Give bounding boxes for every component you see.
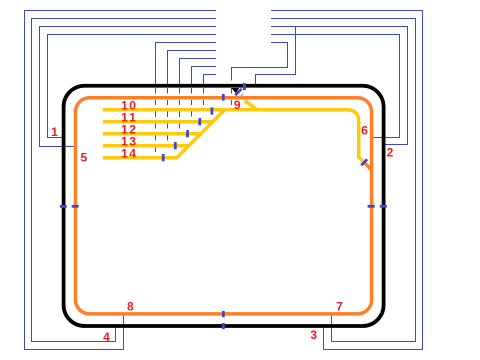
svg-text:5: 5 (80, 150, 87, 164)
svg-text:1: 1 (121, 146, 128, 160)
svg-text:4: 4 (103, 330, 110, 344)
svg-text:8: 8 (127, 300, 134, 314)
svg-text:7: 7 (336, 300, 343, 314)
svg-text:2: 2 (387, 145, 394, 159)
svg-text:6: 6 (361, 124, 368, 138)
svg-text:9: 9 (234, 98, 241, 112)
svg-text:3: 3 (310, 328, 317, 342)
svg-text:1: 1 (51, 125, 58, 139)
svg-text:4: 4 (129, 146, 136, 160)
